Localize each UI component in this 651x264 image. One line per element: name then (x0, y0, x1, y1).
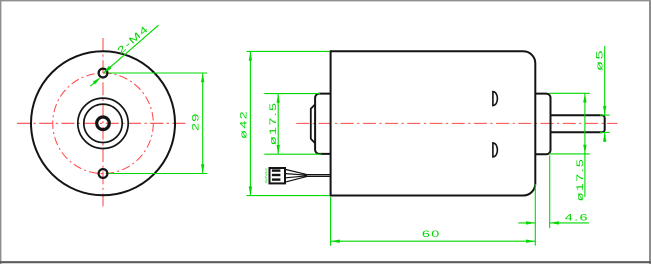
motor body (331, 51, 536, 195)
svg-text:ø17.5: ø17.5 (574, 158, 585, 202)
4.6 arrow left (points left) (550, 221, 559, 224)
4.6 dim line right part (550, 222, 589, 224)
frame border right (649, 0, 651, 264)
leader 2-M4 line (103, 25, 158, 73)
circle mid inner (84, 104, 122, 142)
60 dim line (331, 240, 536, 242)
connector pin 3 (272, 178, 281, 180)
60 arrow right (526, 240, 535, 243)
dia17.5 left arrow up (277, 94, 280, 103)
dia5 ext line bottom (600, 131, 610, 133)
dia17.5 right dim line (584, 93, 586, 197)
frame border top (0, 0, 651, 2)
dia17.5 right arrow up (583, 93, 586, 102)
vent slot bottom (493, 143, 498, 157)
dia42 ext line top (247, 50, 330, 52)
dia17.5 right arrow down (583, 145, 586, 154)
wire fan 2 (286, 174, 307, 176)
dimension 29 ext line top (from top hole) (108, 72, 207, 74)
dia42 arrow down (249, 186, 252, 195)
dia17.5 left arrow down (277, 145, 280, 154)
vent slot top (493, 92, 498, 106)
svg-text:60: 60 (422, 228, 441, 239)
wire fan 1 (286, 170, 307, 175)
centerline horizontal (front view) (17, 122, 189, 124)
circle mid outer (78, 98, 128, 148)
connector body (270, 168, 286, 183)
dia17.5 right ext line top (549, 92, 590, 94)
dimension 29 line (202, 73, 204, 174)
centerline horizontal (side view) (296, 122, 617, 124)
4.6 ext line left (body rear face) (534, 184, 536, 246)
svg-text:ø17.5: ø17.5 (268, 102, 279, 146)
connector pin 1 (272, 169, 281, 171)
wire bundle bottom (305, 175, 331, 177)
leader 2-M4 arrow (points SW to hole) (103, 66, 111, 74)
svg-text:4.6: 4.6 (565, 212, 589, 223)
mounting hole bottom (99, 169, 108, 178)
dia5 dim line below (604, 132, 606, 142)
4.6 dim line left part (518, 222, 535, 224)
dia17.5 left ext line bottom (264, 153, 321, 155)
leader 2-M4 second arrow (points NE from SW side) (90, 83, 94, 86)
mounting hole top (99, 69, 108, 78)
svg-text:2-M4: 2-M4 (115, 23, 151, 56)
svg-text:ø5: ø5 (594, 49, 605, 71)
centerline vertical (front view) (102, 38, 104, 209)
bolt circle (red dash-dot) (53, 73, 154, 174)
dia42 dim line (249, 51, 251, 195)
dimension 29 ext line bottom (from bottom hole) (108, 173, 207, 175)
4.6 ext line right (boss face) (549, 156, 551, 229)
dia5 dim line above (604, 46, 606, 115)
dia5 arrow up (below shaft) (603, 132, 606, 141)
shaft ring (thick) (97, 117, 110, 130)
dia17.5 left dim line (277, 94, 279, 155)
front boss (17.5) (315, 94, 331, 154)
wire bundle top (305, 174, 331, 176)
connector pin 2 (272, 174, 281, 176)
dia17.5 right ext line bottom (549, 153, 590, 155)
60 arrow left (331, 240, 340, 243)
shaft (551, 115, 605, 132)
front boss step (311, 104, 315, 143)
svg-text:3: 3 (265, 179, 268, 185)
dia5 ext line top (600, 114, 610, 116)
60 ext line left (330, 197, 332, 246)
svg-text:ø42: ø42 (238, 110, 249, 139)
4.6 arrow right (points right) (526, 221, 535, 224)
dia42 arrow up (249, 51, 252, 60)
rear boss (17.5) (535, 94, 550, 155)
outer circle (motor body 42mm) (31, 51, 175, 195)
svg-text:29: 29 (190, 112, 201, 131)
wire fan 4 (286, 176, 307, 182)
dia5 arrow down (above shaft) (603, 106, 606, 115)
dimension 29 arrow down (201, 164, 204, 173)
frame border bottom (0, 261, 651, 263)
dia42 ext line bottom (247, 195, 330, 197)
dia17.5 left ext line top (264, 93, 320, 95)
frame border left (0, 0, 2, 264)
dimension 29 arrow up (201, 73, 204, 82)
wire fan 3 (286, 176, 307, 178)
